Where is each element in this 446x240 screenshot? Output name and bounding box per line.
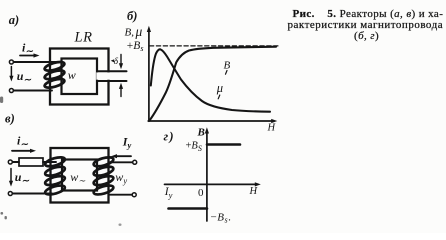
reactor LR core window: [62, 59, 98, 95]
gap dimension arrow lower: [119, 83, 123, 97]
reactor core window (в): [62, 160, 97, 191]
B-axis (г): [205, 127, 209, 221]
wire top-right (в): [109, 161, 133, 163]
svg-text:u∼: u∼: [17, 69, 32, 85]
reactor LR core outer: [50, 49, 109, 105]
svg-text:+Bs: +Bs: [127, 40, 144, 53]
H-axis (г): [165, 182, 261, 186]
svg-text:а): а): [9, 13, 19, 27]
air gap top line: [98, 70, 127, 72]
svg-text:+BS: +BS: [186, 141, 202, 154]
figure caption line 1: [293, 9, 444, 20]
winding w coil: [44, 60, 65, 89]
current arrow i~: [20, 53, 40, 57]
wire bottom input: [14, 90, 52, 92]
svg-text:w: w: [68, 68, 76, 82]
y-axis B,μ: [147, 26, 151, 122]
svg-text:Iy: Iy: [122, 134, 132, 150]
svg-text:B: B: [224, 60, 231, 72]
svg-text:0: 0: [198, 187, 204, 199]
winding w~ coil: [44, 156, 66, 197]
terminal node bottom-right (в): [132, 193, 136, 197]
wire bottom-right (в): [110, 194, 132, 196]
series resistor box: [19, 158, 43, 166]
svg-text:г): г): [164, 130, 175, 144]
svg-text:w∼: w∼: [70, 170, 86, 186]
svg-text:H: H: [267, 123, 277, 134]
svg-text:B,μ: B,μ: [125, 24, 143, 39]
figure caption line 3: [354, 31, 379, 42]
reactor core outer (в): [51, 148, 109, 203]
wire bottom-left (в): [13, 193, 53, 195]
svg-text:wy: wy: [115, 170, 127, 186]
label B: [224, 60, 231, 75]
svg-text:B: B: [197, 127, 205, 139]
wire top input: [14, 61, 56, 63]
current arrow Iy: [111, 154, 131, 158]
svg-text:H: H: [249, 186, 259, 197]
voltage arrow u~ (в): [9, 169, 13, 187]
terminal node top-left (в): [8, 160, 12, 164]
curve B: [150, 47, 277, 121]
label δ: [111, 57, 119, 67]
svg-text:−Bs.: −Bs.: [211, 212, 232, 225]
wire top-left (в): [13, 161, 20, 163]
gap dimension arrow upper: [119, 55, 123, 70]
svg-text:u∼: u∼: [15, 170, 30, 186]
air gap bottom line: [98, 80, 127, 82]
terminal node top-right (в): [133, 160, 137, 164]
svg-text:i∼: i∼: [22, 40, 33, 56]
step line -Bs: [169, 207, 208, 210]
svg-text:в): в): [5, 111, 15, 125]
air gap slot: [96, 72, 128, 79]
svg-text:Iy: Iy: [164, 186, 173, 200]
x-axis H: [148, 119, 277, 123]
svg-text:μ: μ: [216, 81, 223, 95]
label μ: [216, 81, 223, 99]
svg-text:б): б): [127, 9, 137, 23]
svg-text:i∼: i∼: [17, 133, 28, 149]
winding wy coil: [93, 156, 115, 197]
step line +BS: [207, 143, 240, 146]
svg-text:LR: LR: [74, 29, 93, 45]
current arrow i~ (в): [12, 149, 36, 153]
svg-text:δ: δ: [114, 57, 119, 67]
terminal node bottom-left (в): [8, 192, 12, 196]
voltage arrow u~: [9, 67, 13, 82]
curve μ: [151, 49, 270, 111]
terminal node bottom-left: [9, 89, 13, 93]
figure caption line 2: [288, 20, 444, 31]
dashed saturation level: [150, 45, 280, 47]
terminal node top-left: [9, 60, 13, 64]
wire resistor to core: [43, 161, 56, 163]
